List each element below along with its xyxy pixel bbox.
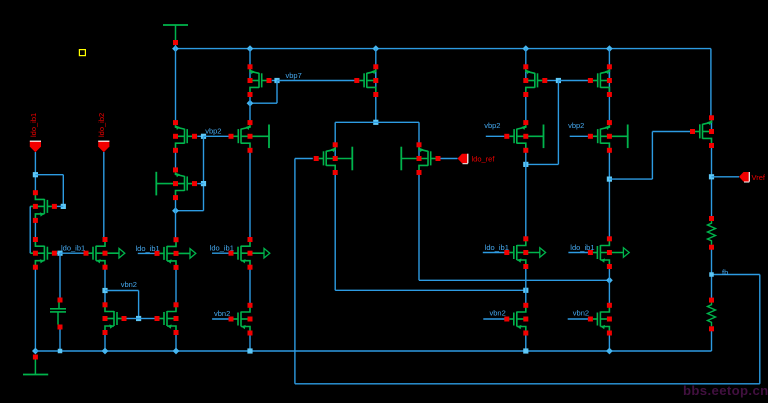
wire M4 source to M9 drain xyxy=(175,267,177,305)
wire R1 to fb node xyxy=(711,250,713,301)
transistor P8 xyxy=(593,125,628,151)
wire vbn2 to gate M9 xyxy=(139,318,155,320)
wire tail horizontal xyxy=(335,121,419,123)
bottom ground rail xyxy=(35,350,711,352)
wire P7 drain to M6 drain xyxy=(525,150,527,239)
wire M10 source to rail xyxy=(249,333,251,351)
pin square xyxy=(333,170,338,175)
pin square xyxy=(174,251,179,256)
wire P11 drain route to M7 source xyxy=(418,173,420,281)
wire tail to P11 source xyxy=(418,122,420,145)
pin square xyxy=(709,298,714,303)
wire vbn2 branch xyxy=(105,290,139,292)
pin square xyxy=(504,317,509,322)
node P1 drain xyxy=(247,100,254,107)
wire P5 drain to P9 source xyxy=(175,150,177,170)
pin square xyxy=(523,250,528,255)
pin square xyxy=(248,303,253,308)
pin square xyxy=(174,265,179,270)
pin square xyxy=(103,251,108,256)
wire node B to gate M3 xyxy=(60,252,84,254)
svg-text:ldo_ib1: ldo_ib1 xyxy=(61,243,85,252)
pin square xyxy=(122,316,127,321)
pin square xyxy=(523,78,528,83)
pin square xyxy=(33,190,38,195)
node gate M1 xyxy=(61,204,66,209)
node M6 source tap xyxy=(523,288,528,293)
wire P12 drain to Vref node xyxy=(711,146,713,219)
transistor M6 xyxy=(509,239,545,267)
wire stub gate M6 xyxy=(483,252,505,254)
node gate P9 xyxy=(201,181,206,186)
pin square xyxy=(542,78,547,83)
transistor M7 xyxy=(593,239,629,267)
wire P3 drain to P7 source xyxy=(525,95,527,123)
svg-text:Vref: Vref xyxy=(752,173,766,182)
resistor R1 xyxy=(708,221,716,245)
transistor P2 xyxy=(375,67,377,81)
wire stub gate M11 xyxy=(483,318,504,320)
pin square xyxy=(607,236,612,241)
pin square xyxy=(709,216,714,221)
pin square xyxy=(523,317,528,322)
pin square xyxy=(173,134,178,139)
wire stub gate P8 xyxy=(570,135,588,137)
wire vbp2 vertical xyxy=(203,136,205,210)
transistor P5 xyxy=(176,125,193,150)
wire bulk tie M1-M2 xyxy=(29,206,31,253)
pin ldo_ref xyxy=(458,154,468,164)
pin ldo_ib1 xyxy=(30,141,41,152)
pin square xyxy=(103,237,108,242)
svg-text:fb: fb xyxy=(722,268,728,277)
pin Vref xyxy=(739,172,749,182)
pin square xyxy=(84,251,89,256)
pin square xyxy=(588,134,593,139)
svg-text:vbp2: vbp2 xyxy=(484,121,500,130)
wire M1 source to M2 drain xyxy=(34,220,36,239)
pin square xyxy=(229,251,234,256)
pin square xyxy=(248,265,253,270)
wire M11 source to rail xyxy=(525,333,527,351)
svg-text:vbp2: vbp2 xyxy=(205,127,221,136)
wire rail to P2 source xyxy=(375,49,377,95)
pin square xyxy=(173,40,178,45)
node B ldo_ib1 net xyxy=(57,251,62,256)
pin square xyxy=(417,142,422,147)
yellow marker square xyxy=(79,50,85,56)
wire tail to P10 source xyxy=(334,122,336,145)
wire vbp7 diode loop xyxy=(276,81,278,104)
wire P4 drain to P8 source xyxy=(608,95,610,123)
wire stub gate M10 xyxy=(212,318,229,320)
pin square xyxy=(333,142,338,147)
pin square xyxy=(155,316,160,321)
pin square xyxy=(333,156,338,161)
pin square xyxy=(523,303,528,308)
pin square xyxy=(504,250,509,255)
pin square xyxy=(103,316,108,321)
pin square xyxy=(248,237,253,242)
pin square xyxy=(709,326,714,331)
transistor M5 xyxy=(234,240,270,268)
svg-text:bbs.eetop.cn: bbs.eetop.cn xyxy=(683,383,768,398)
pin square xyxy=(174,316,179,321)
svg-text:vbn2: vbn2 xyxy=(214,309,230,318)
pin square xyxy=(607,250,612,255)
wire branch to gate M1 xyxy=(35,174,63,176)
pin square xyxy=(248,78,253,83)
pin square xyxy=(248,92,253,97)
wire P10 drain route to M6 source xyxy=(334,173,336,291)
wire rail to P4 source xyxy=(608,49,610,95)
pin square xyxy=(607,78,612,83)
svg-text:vbp2: vbp2 xyxy=(568,121,584,130)
pin square xyxy=(709,143,714,148)
pin square xyxy=(248,251,253,256)
node P7 drain tap xyxy=(523,162,528,167)
pin square xyxy=(417,156,422,161)
pin square xyxy=(103,302,108,307)
pin square xyxy=(33,204,38,209)
pin square xyxy=(607,303,612,308)
wire gate M2 to node B xyxy=(54,252,60,254)
transistor P3 xyxy=(525,67,527,81)
pin square xyxy=(248,120,253,125)
wire vdd col176 down to P5 xyxy=(175,49,177,123)
pin square xyxy=(588,250,593,255)
transistor M8 xyxy=(105,305,122,333)
node vbn2 branch xyxy=(102,288,107,293)
pin square xyxy=(192,181,197,186)
wire gates to gate P4 xyxy=(558,80,588,82)
pin square xyxy=(607,120,612,125)
wire capacitor to rail xyxy=(59,329,61,351)
pin square xyxy=(523,92,528,97)
transistor M3 xyxy=(89,240,125,268)
pin square xyxy=(607,64,612,69)
wire gate P1 to vbp7 node xyxy=(272,80,277,82)
pin square xyxy=(229,317,234,322)
pin square xyxy=(52,204,57,209)
transistor M1 xyxy=(30,193,52,221)
pin square xyxy=(174,237,179,242)
node fb xyxy=(709,272,714,277)
svg-text:vbp7: vbp7 xyxy=(286,71,302,80)
wire pin ldo_ib1 down xyxy=(34,152,36,194)
pin square xyxy=(103,265,108,270)
pin square xyxy=(607,331,612,336)
pin square xyxy=(229,134,234,139)
wire rail to P3 source xyxy=(525,49,527,67)
pin square xyxy=(607,264,612,269)
wire P8 drain to M7 drain xyxy=(608,150,610,239)
pin square xyxy=(173,195,178,200)
top VDD rail xyxy=(176,48,711,50)
node vbp2 xyxy=(201,134,206,139)
pin square xyxy=(173,120,178,125)
pin square xyxy=(709,115,714,120)
pin square xyxy=(354,78,359,83)
node branch A xyxy=(33,172,38,177)
wire Vref node to pin xyxy=(712,176,740,178)
wire P1 drain to P6 source xyxy=(249,95,251,123)
transistor M10 xyxy=(234,305,251,333)
pin square xyxy=(58,325,63,330)
vdd supply symbol xyxy=(163,24,188,26)
pin square xyxy=(690,129,695,134)
wire gate P5 to vbp2 node xyxy=(197,135,203,137)
capacitor C1 xyxy=(58,302,60,309)
transistor M4 xyxy=(160,240,196,268)
node drain P9 xyxy=(172,207,179,214)
wire R2 to rail xyxy=(711,331,713,351)
wire M8 source to rail xyxy=(104,333,106,352)
pin square xyxy=(523,64,528,69)
wire stub gate M4 xyxy=(138,252,155,254)
pin square xyxy=(173,148,178,153)
pin square xyxy=(523,331,528,336)
wire M12 source to rail xyxy=(608,333,610,351)
pin square xyxy=(58,298,63,303)
wire M3 source down xyxy=(104,267,106,305)
transistor P1 xyxy=(249,67,251,81)
transistor M12 xyxy=(593,305,610,333)
wire P6 drain to M5 drain xyxy=(249,150,251,239)
transistor P7 xyxy=(509,125,543,151)
svg-text:vbn2: vbn2 xyxy=(573,309,589,318)
pin square xyxy=(33,251,38,256)
wire M5 source to M10 drain xyxy=(249,267,251,305)
pin square xyxy=(709,129,714,134)
node vbn2 gate tap xyxy=(136,316,141,321)
pin square xyxy=(373,78,378,83)
wire vdd stem to rail xyxy=(175,43,177,49)
wire feedback net xyxy=(294,159,296,384)
pin square xyxy=(248,331,253,336)
node output gate tap xyxy=(607,177,612,182)
pin square xyxy=(607,148,612,153)
pin square xyxy=(373,64,378,69)
wire vbn2 to gate M8 xyxy=(126,318,139,320)
pin square xyxy=(709,245,714,250)
pin square xyxy=(417,170,422,175)
pin square xyxy=(248,134,253,139)
pin square xyxy=(523,148,528,153)
pin square xyxy=(192,134,197,139)
wire vbp2 bottom corner xyxy=(176,210,204,212)
pin square xyxy=(33,355,38,360)
pin square xyxy=(607,92,612,97)
transistor M9 xyxy=(160,305,177,333)
wire gate P9 tap xyxy=(197,183,203,185)
wire P2 drain to tail xyxy=(375,95,377,123)
pin square xyxy=(52,251,57,256)
ground symbol xyxy=(32,348,39,355)
pin square xyxy=(155,251,160,256)
pin square xyxy=(173,167,178,172)
wire pin ldo_ib2 down to M3 drain xyxy=(103,152,105,240)
pin square xyxy=(248,148,253,153)
wire stub gate M5 xyxy=(212,252,229,254)
wire gate P11 to pin ldo_ref xyxy=(439,158,457,160)
transistor P9 xyxy=(156,172,192,198)
wire stub gate M12 xyxy=(568,318,588,320)
pin square xyxy=(248,317,253,322)
pin square xyxy=(373,92,378,97)
pin square xyxy=(523,264,528,269)
pin square xyxy=(504,134,509,139)
transistor P10 xyxy=(334,145,336,159)
pin square xyxy=(607,317,612,322)
pin square xyxy=(248,64,253,69)
wire stub gate M7 xyxy=(568,252,588,254)
wire to output pmos gate xyxy=(609,178,652,180)
wire vbp diode drop xyxy=(557,81,559,165)
pin square xyxy=(314,156,319,161)
node Vref xyxy=(709,174,714,179)
svg-text:ldo_ref: ldo_ref xyxy=(472,154,496,163)
svg-text:vbn2: vbn2 xyxy=(490,309,506,318)
wire vbp7 to gate P2 xyxy=(277,80,355,82)
pin square xyxy=(523,120,528,125)
wire gate M1 xyxy=(54,205,63,207)
pin square xyxy=(523,236,528,241)
wire M9 source to rail xyxy=(175,333,177,352)
pin square xyxy=(436,156,441,161)
pin square xyxy=(607,134,612,139)
transistor M11 xyxy=(509,305,526,333)
wire M7 source to M12 drain xyxy=(608,267,610,306)
pin ldo_ib2 xyxy=(98,141,109,152)
wire M2 source to gnd rail xyxy=(34,267,36,351)
pin square xyxy=(588,78,593,83)
svg-text:ldo_ib2: ldo_ib2 xyxy=(97,113,106,137)
pin square xyxy=(33,265,38,270)
node tail xyxy=(373,120,378,125)
node vbp gates xyxy=(556,78,561,83)
pin square xyxy=(174,302,179,307)
pin square xyxy=(103,330,108,335)
wire gate P3 to node vbp1b xyxy=(547,80,558,82)
wire fb to gate P10 xyxy=(295,158,313,160)
transistor P4 xyxy=(608,67,610,81)
transistor P11 xyxy=(418,145,420,159)
svg-text:vbn2: vbn2 xyxy=(121,280,137,289)
transistor P6 xyxy=(234,125,270,151)
pin square xyxy=(33,218,38,223)
svg-text:ldo_ib1: ldo_ib1 xyxy=(29,113,38,137)
wire vdd drop col711 xyxy=(710,49,712,118)
node vbp7 xyxy=(274,78,279,83)
pin square xyxy=(588,317,593,322)
wire M6 source to M11 drain xyxy=(525,267,527,306)
resistor R2 xyxy=(708,303,716,327)
transistor P12 xyxy=(711,118,713,132)
wire vbp2 node to gate P6 xyxy=(204,135,230,137)
pin square xyxy=(33,237,38,242)
node M7 source tap xyxy=(606,277,613,284)
pin square xyxy=(267,78,272,83)
node junctions on top rail xyxy=(172,45,179,52)
wire P9 drain to M4 drain xyxy=(175,198,177,240)
wire node B down to capacitor xyxy=(59,253,61,300)
pin square xyxy=(523,134,528,139)
pin square xyxy=(174,330,179,335)
wire rail to P1 source xyxy=(249,49,251,67)
transistor M2 xyxy=(30,240,52,268)
wire stub gate P7 xyxy=(486,135,505,137)
pin square xyxy=(173,181,178,186)
